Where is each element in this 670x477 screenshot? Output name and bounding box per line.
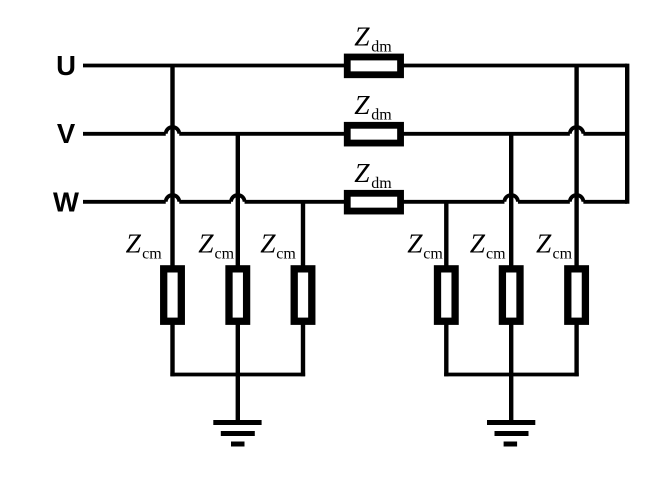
wire: right ground bus [444, 373, 579, 377]
label Zcm2 [198, 228, 234, 263]
wire: Zcm5 bottom lead and ground stem [509, 323, 513, 421]
label Zdm (U) [354, 21, 392, 56]
svg-text:Z: Z [198, 228, 214, 259]
wire: right U branch vertical (down to Zcm6) [574, 66, 578, 267]
wire: Zcm3 bottom lead [301, 323, 305, 377]
label Zcm6 [536, 228, 573, 263]
wire: W phase line segment 4 [518, 200, 570, 204]
impedance Zcm6 (right, U) [568, 269, 586, 321]
wire: Zcm2 bottom lead and ground stem [236, 323, 240, 421]
impedance Zcm5 (right, V) [502, 269, 520, 321]
ground (left) [213, 423, 261, 445]
svg-text:Z: Z [407, 228, 423, 259]
wire: Zcm4 bottom lead [444, 323, 448, 377]
svg-text:U: U [56, 50, 76, 81]
label Zcm1 [126, 228, 163, 263]
impedance Zcm3 (left, W) [294, 269, 312, 321]
impedance Zdm (U line) [347, 57, 400, 75]
wire: left U branch vertical (down to Zcm1) [170, 66, 174, 267]
wire: Zcm1 bottom lead [170, 323, 174, 377]
wire hop: W line over right U branch [570, 195, 584, 202]
svg-text:cm: cm [142, 246, 162, 263]
svg-text:W: W [53, 187, 79, 218]
svg-text:Z: Z [354, 21, 370, 52]
wire hop: V line over U branch [166, 127, 180, 134]
wire: left V branch vertical (down to Zcm2) [236, 134, 240, 267]
wire: right W branch vertical (down to Zcm4) [444, 202, 448, 267]
label Zcm4 [407, 228, 443, 263]
svg-text:cm: cm [276, 246, 296, 263]
wire: right edge vertical shorting U V W [625, 64, 629, 204]
wire: V phase line segment 3 [583, 132, 627, 136]
wire hop: W line over right V branch [504, 195, 518, 202]
impedance Zdm (W line) [347, 193, 400, 211]
ground (right) [487, 423, 535, 445]
svg-text:Z: Z [354, 89, 370, 120]
svg-text:Z: Z [536, 228, 552, 259]
impedance Zcm1 (left, U) [164, 269, 182, 321]
svg-text:cm: cm [553, 246, 573, 263]
wire: left W branch vertical (down to Zcm3) [301, 202, 305, 267]
svg-text:V: V [57, 118, 76, 149]
wire: left ground bus [170, 373, 305, 377]
wire: W phase line segment 3 [245, 200, 505, 204]
impedance Zcm4 (right, W) [438, 269, 456, 321]
svg-text:Z: Z [260, 228, 276, 259]
svg-text:cm: cm [423, 246, 443, 263]
svg-text:cm: cm [215, 246, 235, 263]
impedance Zdm (V line) [347, 125, 400, 143]
label Zdm (V) [354, 89, 392, 124]
svg-text:dm: dm [371, 39, 392, 56]
wire: right V branch vertical (down to Zcm5) [509, 134, 513, 267]
label Zcm5 [470, 228, 506, 263]
wire hop: W line over U branch [166, 195, 180, 202]
wire: W phase line segment 2 [179, 200, 231, 204]
wire: W phase line segment 5 [583, 200, 627, 204]
wire hop: W line over V branch [231, 195, 245, 202]
svg-text:dm: dm [371, 107, 392, 124]
svg-text:dm: dm [371, 175, 392, 192]
wire hop: V line over right U branch [570, 127, 584, 134]
wire: V phase line segment 2 [179, 132, 570, 136]
svg-text:Z: Z [470, 228, 486, 259]
svg-text:Z: Z [354, 157, 370, 188]
svg-text:cm: cm [486, 246, 506, 263]
label Zcm3 [260, 228, 296, 263]
wire: Zcm6 bottom lead [574, 323, 578, 377]
wire: U phase line [83, 64, 627, 68]
wire: W phase line segment 1 [83, 200, 166, 204]
svg-text:Z: Z [126, 228, 142, 259]
label Zdm (W) [354, 157, 392, 192]
impedance Zcm2 (left, V) [229, 269, 247, 321]
wire: V phase line segment 1 [83, 132, 166, 136]
